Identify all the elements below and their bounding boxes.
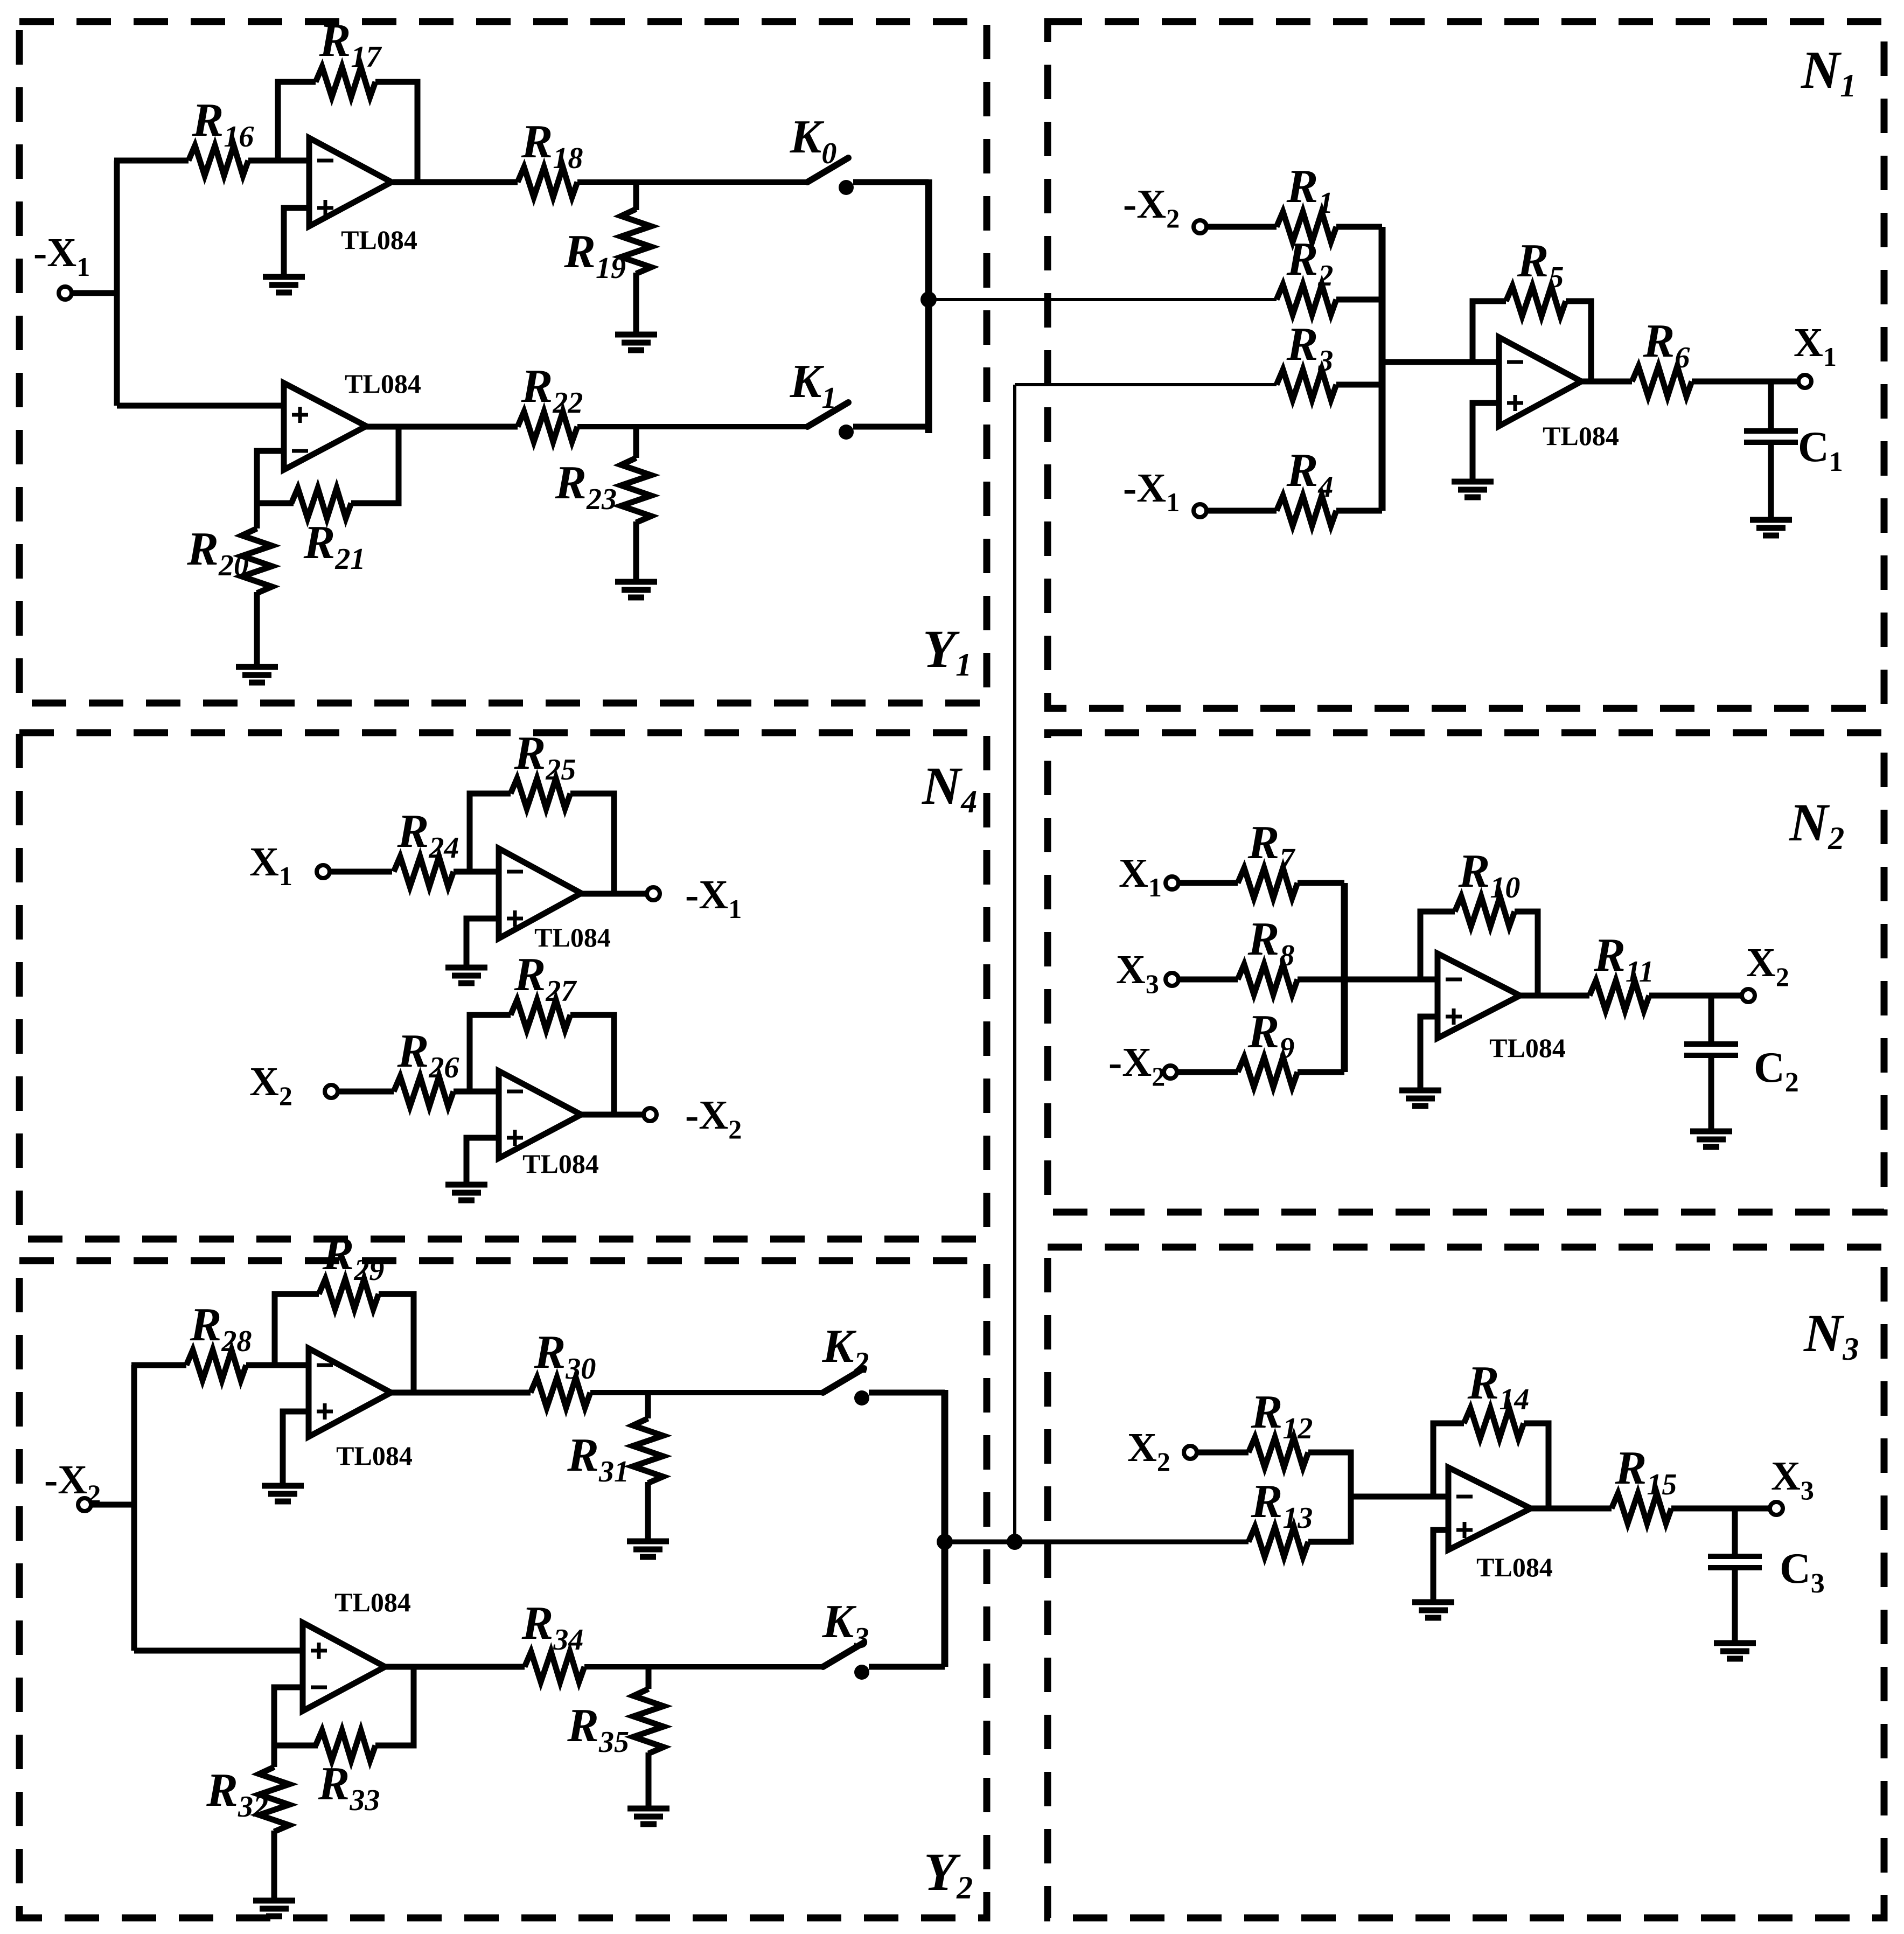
wire R23 top bbox=[633, 427, 639, 458]
resistor R8 bbox=[1238, 964, 1298, 994]
wire U9 output bbox=[383, 1664, 525, 1670]
wire R29 feedback left bbox=[275, 1294, 319, 1365]
wire R5 feedback left bbox=[1473, 301, 1506, 362]
wire N2 summing bus bbox=[1341, 883, 1348, 1072]
wire C3 top bbox=[1732, 1508, 1738, 1556]
ground R19 bbox=[615, 332, 657, 338]
resistor R12 bbox=[1249, 1437, 1308, 1467]
op-amp U3 TL084 bbox=[1499, 337, 1581, 426]
wire -X2 stub bbox=[91, 1502, 134, 1508]
ground U3 bbox=[1452, 479, 1494, 485]
wire R7 right bbox=[1298, 880, 1344, 886]
switch K1 bbox=[807, 402, 848, 427]
wire R33 left bbox=[274, 1743, 318, 1749]
wire R16 to op-amp bbox=[248, 158, 309, 164]
svg-text:TL084: TL084 bbox=[345, 368, 421, 399]
wire R17 feedback left bbox=[278, 82, 316, 161]
op-amp U6 TL084 bbox=[1438, 954, 1520, 1038]
wire U4 output bbox=[581, 891, 647, 897]
capacitor C2 bbox=[1684, 1041, 1738, 1047]
resistor R28 bbox=[186, 1350, 246, 1380]
wire R33 right feedback bbox=[375, 1667, 414, 1745]
capacitor C1 bbox=[1744, 428, 1798, 434]
wire R23 bottom bbox=[633, 521, 639, 581]
wire R32 bottom bbox=[271, 1831, 277, 1900]
resistor R20 bbox=[242, 528, 272, 593]
dashed box N2 block bbox=[1048, 733, 1884, 1212]
node X3 output terminal bbox=[1770, 1502, 1783, 1515]
resistor R17 bbox=[316, 67, 375, 97]
resistor R2 bbox=[1277, 284, 1336, 315]
resistor R9 bbox=[1238, 1057, 1298, 1087]
resistor R4 bbox=[1277, 496, 1336, 526]
resistor R19 bbox=[621, 209, 651, 274]
wire R28 to op-amp bbox=[246, 1362, 309, 1368]
wire R6 to X1 node bbox=[1692, 379, 1798, 385]
wire U5 plus to ground bbox=[466, 1138, 499, 1184]
wire Y1 top branch bbox=[114, 158, 189, 164]
node X2 input terminal N4 bbox=[325, 1085, 338, 1098]
ground R31 bbox=[627, 1539, 669, 1545]
wire U3 plus to ground bbox=[1473, 403, 1499, 481]
wire R18 to K0 bbox=[577, 179, 807, 185]
wire R13 right bbox=[1308, 1539, 1351, 1545]
wire R29 feedback right bbox=[379, 1294, 414, 1393]
wire R4 left bbox=[1206, 508, 1277, 514]
wire R34 to K3 bbox=[584, 1664, 823, 1669]
wire R26 left bbox=[338, 1089, 394, 1095]
resistor R6 bbox=[1632, 366, 1692, 396]
wire R12 right bbox=[1308, 1452, 1351, 1541]
wire R24 to op-amp bbox=[454, 869, 499, 875]
wire R7 left bbox=[1178, 880, 1238, 886]
wire K2 to bus bbox=[869, 1390, 945, 1396]
svg-text:TL084: TL084 bbox=[336, 1441, 413, 1471]
wire Y1 switch bus bbox=[925, 179, 932, 433]
resistor R25 bbox=[511, 778, 570, 809]
wire K1 to bus bbox=[853, 424, 929, 430]
op-amp U5 TL084 bbox=[499, 1071, 581, 1158]
svg-text:TL084: TL084 bbox=[534, 922, 611, 952]
resistor R1 bbox=[1277, 212, 1336, 242]
wire K3 to bus bbox=[869, 1664, 945, 1670]
switch K0 bbox=[807, 158, 848, 182]
wire N1 sum to op-amp bbox=[1382, 359, 1499, 365]
resistor R32 bbox=[259, 1767, 289, 1832]
wire R22 to K1 bbox=[577, 424, 807, 429]
wire Y2 top branch bbox=[131, 1362, 186, 1368]
wire R11 to X2 node bbox=[1649, 993, 1742, 999]
ground R23 bbox=[615, 579, 657, 585]
wire R15 to X3 node bbox=[1671, 1506, 1770, 1512]
svg-text:TL084: TL084 bbox=[334, 1587, 411, 1617]
wire U6 plus to ground bbox=[1420, 1017, 1438, 1089]
wire R12 left bbox=[1197, 1450, 1249, 1456]
op-amp U8 TL084 bbox=[309, 1348, 391, 1437]
wire R19 bottom bbox=[633, 273, 639, 333]
resistor R21 bbox=[291, 488, 351, 518]
wire R35 bottom bbox=[646, 1752, 652, 1807]
resistor R34 bbox=[525, 1652, 584, 1682]
resistor R14 bbox=[1464, 1408, 1524, 1438]
wire R31 top bbox=[645, 1393, 651, 1418]
wire Y2 lower branch bbox=[134, 1648, 303, 1654]
resistor R24 bbox=[394, 857, 454, 887]
junction Y1 output node bbox=[920, 291, 937, 308]
wire U2 minus stub bbox=[257, 451, 284, 503]
resistor R18 bbox=[518, 167, 577, 197]
wire R30 to K2 bbox=[590, 1390, 823, 1395]
wire Y2 switch bus bbox=[941, 1390, 948, 1667]
wire R20 top bbox=[254, 501, 260, 528]
svg-text:TL084: TL084 bbox=[1543, 421, 1619, 451]
node X3 input terminal N2 bbox=[1166, 973, 1178, 986]
wire R20 bottom bbox=[254, 592, 260, 666]
wire R24 left bbox=[330, 869, 392, 875]
wire U6 output bbox=[1520, 993, 1589, 999]
wire C1 bottom bbox=[1768, 442, 1774, 519]
wire K0 to bus bbox=[853, 179, 929, 185]
wire R19 top bbox=[633, 182, 639, 210]
wire N3 sum to op-amp bbox=[1349, 1494, 1448, 1500]
svg-text:TL084: TL084 bbox=[1476, 1552, 1553, 1582]
node -X1 input terminal N1 bbox=[1194, 504, 1206, 517]
op-amp U7 TL084 bbox=[1448, 1467, 1531, 1550]
wire C1 top bbox=[1768, 381, 1774, 431]
node -X2 input terminal N2 bbox=[1164, 1066, 1177, 1079]
switch K2 bbox=[823, 1368, 864, 1393]
svg-text:TL084: TL084 bbox=[341, 225, 417, 255]
wire R1 right bbox=[1336, 224, 1382, 230]
wire Y2 output riser bbox=[1013, 385, 1016, 1542]
wire R9 left bbox=[1177, 1069, 1238, 1075]
resistor R26 bbox=[394, 1076, 454, 1107]
wire R2 right bbox=[1336, 297, 1382, 303]
wire Y1 output to R2 bbox=[929, 298, 1277, 301]
wire R10 feedback right bbox=[1515, 912, 1538, 996]
dashed box N3 block bbox=[1048, 1247, 1884, 1918]
wire N3 bus bbox=[1348, 1450, 1354, 1545]
wire R10 feedback left bbox=[1420, 912, 1455, 979]
svg-text:TL084: TL084 bbox=[1489, 1033, 1566, 1063]
wire -X1 stub bbox=[72, 290, 117, 296]
ground U8 bbox=[262, 1483, 304, 1489]
svg-text:TL084: TL084 bbox=[522, 1149, 599, 1179]
ground C3 bbox=[1714, 1640, 1756, 1646]
dashed box N4 block bbox=[19, 733, 987, 1239]
wire U5 output bbox=[581, 1112, 644, 1118]
node X1 input terminal N2 bbox=[1166, 876, 1178, 889]
dashed box Y1 block bbox=[19, 22, 987, 703]
wire R17 feedback right bbox=[375, 82, 417, 182]
dashed box N1 block bbox=[1048, 22, 1884, 708]
ground U1 bbox=[263, 274, 305, 280]
node -X1 output terminal N4 bbox=[647, 887, 660, 900]
node -X1 input terminal bbox=[59, 287, 72, 300]
wire R14 feedback left bbox=[1433, 1423, 1464, 1497]
wire R31 bottom bbox=[645, 1482, 651, 1540]
op-amp U1 TL084 bbox=[309, 138, 392, 226]
resistor R13 bbox=[1249, 1527, 1308, 1557]
ground C2 bbox=[1690, 1129, 1732, 1135]
wire U8 output bbox=[391, 1390, 531, 1396]
resistor R30 bbox=[531, 1378, 590, 1408]
resistor R33 bbox=[316, 1730, 375, 1761]
node -X2 output terminal N4 bbox=[644, 1108, 657, 1121]
wire U7 output bbox=[1531, 1506, 1612, 1512]
switch K3 bbox=[823, 1643, 864, 1667]
node -X2 input terminal Y2 bbox=[78, 1498, 91, 1511]
wire R8 left bbox=[1178, 977, 1238, 983]
wire R35 top bbox=[646, 1667, 652, 1689]
junction riser node bbox=[1007, 1534, 1023, 1550]
wire C2 bottom bbox=[1708, 1055, 1714, 1130]
ground C1 bbox=[1750, 517, 1792, 523]
wire R32 top bbox=[271, 1743, 277, 1767]
wire R27 feedback left bbox=[470, 1015, 511, 1091]
resistor R31 bbox=[633, 1418, 663, 1483]
wire R1 left bbox=[1206, 224, 1277, 230]
wire Y2 output to R13 bbox=[945, 1540, 1249, 1545]
resistor R23 bbox=[621, 458, 651, 523]
ground U5 bbox=[445, 1182, 487, 1188]
wire C2 top bbox=[1708, 996, 1714, 1044]
wire Y2 input bus bbox=[131, 1365, 137, 1651]
wire R26 to op-amp bbox=[454, 1089, 499, 1095]
ground U7 bbox=[1412, 1599, 1454, 1605]
wire C3 bottom bbox=[1732, 1568, 1738, 1642]
resistor R3 bbox=[1277, 370, 1336, 400]
wire U3 output bbox=[1581, 379, 1632, 385]
ground U4 bbox=[445, 965, 487, 971]
ground R32 bbox=[253, 1898, 295, 1904]
wire U1 plus input to ground bbox=[284, 208, 309, 276]
node X2 input terminal N3 bbox=[1184, 1446, 1197, 1459]
node X2 output terminal bbox=[1742, 989, 1755, 1002]
wire R14 feedback right bbox=[1524, 1423, 1549, 1508]
ground R20 bbox=[236, 664, 278, 670]
wire U7 plus to ground bbox=[1433, 1530, 1448, 1601]
wire U8 plus to ground bbox=[283, 1411, 309, 1485]
resistor R29 bbox=[319, 1279, 379, 1309]
op-amp U2 TL084 bbox=[284, 383, 366, 470]
resistor R16 bbox=[189, 145, 248, 176]
wire U9 minus stub bbox=[274, 1687, 303, 1745]
capacitor C3 bbox=[1708, 1554, 1762, 1559]
resistor R10 bbox=[1455, 896, 1515, 927]
resistor R11 bbox=[1589, 980, 1649, 1011]
wire R4 right bbox=[1336, 508, 1382, 514]
node X1 input terminal N4 bbox=[317, 865, 330, 878]
op-amp U4 TL084 bbox=[499, 848, 581, 938]
resistor R5 bbox=[1506, 286, 1566, 316]
node X1 output terminal bbox=[1798, 375, 1811, 388]
resistor R35 bbox=[633, 1689, 664, 1754]
wire N2 sum to op-amp bbox=[1298, 977, 1438, 983]
ground R35 bbox=[627, 1806, 669, 1812]
resistor R22 bbox=[518, 412, 577, 442]
wire Y1 lower branch bbox=[117, 403, 284, 409]
wire R9 right bbox=[1298, 1069, 1344, 1075]
wire U1 output bbox=[393, 179, 518, 185]
wire N1 summing bus bbox=[1379, 227, 1386, 511]
wire R5 feedback right bbox=[1566, 301, 1591, 381]
wire U4 plus to ground bbox=[466, 919, 499, 966]
dashed box Y2 block bbox=[19, 1261, 987, 1918]
wire R25 feedback left bbox=[470, 794, 511, 872]
junction Y2 output node bbox=[937, 1534, 953, 1550]
ground U6 bbox=[1399, 1088, 1441, 1094]
resistor R15 bbox=[1612, 1493, 1671, 1523]
op-amp U9 TL084 bbox=[303, 1623, 385, 1711]
wire U2 output bbox=[366, 424, 518, 430]
wire R21 right feedback bbox=[351, 427, 399, 503]
wire R25 feedback right bbox=[570, 794, 614, 894]
node -X2 input terminal N1 bbox=[1194, 220, 1206, 233]
wire R3 right bbox=[1336, 382, 1382, 388]
resistor R27 bbox=[511, 1000, 570, 1030]
wire R21 left bbox=[257, 500, 294, 506]
resistor R7 bbox=[1238, 868, 1298, 898]
wire riser to R3 bbox=[1015, 383, 1277, 386]
wire Y1 input bus bbox=[114, 161, 120, 406]
wire R27 feedback right bbox=[570, 1015, 614, 1115]
